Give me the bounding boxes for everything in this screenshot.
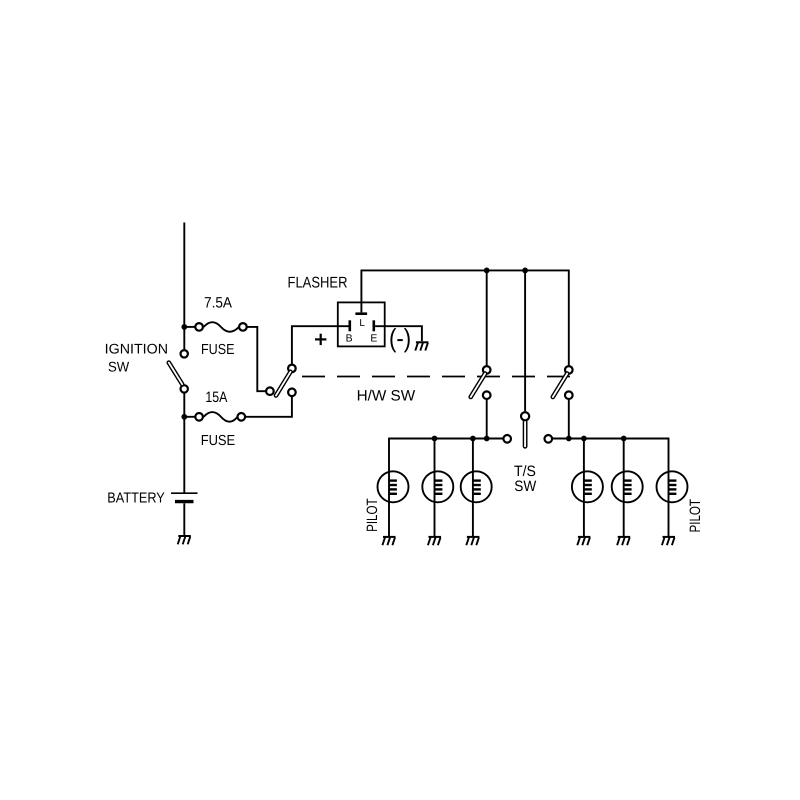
ground flasher [415, 342, 428, 350]
lamp L3 [461, 439, 492, 537]
hazard switch mid section lever [471, 374, 485, 397]
plus sign at flasher input [315, 334, 326, 345]
lamp L5 [612, 439, 643, 537]
ground lamp L3 [466, 537, 479, 545]
dashed mechanical linkage line [302, 376, 570, 378]
svg-text:(-): (-) [389, 323, 411, 353]
svg-text:IGNITION: IGNITION [105, 341, 168, 357]
wire battery to ground [183, 503, 185, 536]
svg-text:BATTERY: BATTERY [107, 491, 165, 507]
ground lamp L5 [617, 537, 630, 545]
fuse F1 7.5A element [204, 322, 239, 332]
hazard switch right section lever [553, 374, 567, 397]
ground lamp L4 [577, 537, 590, 545]
node right bus lamp4 [581, 436, 587, 442]
wire H/W right bottom terminal to right lamp bus [568, 400, 570, 439]
svg-text:FUSE: FUSE [201, 433, 236, 449]
hazard switch left section lever [276, 372, 291, 396]
turn signal switch right contact [545, 435, 553, 443]
fuse F1 7.5A right terminal [239, 323, 247, 331]
svg-text:PILOT: PILOT [687, 499, 704, 533]
svg-text:H/W SW: H/W SW [357, 387, 416, 404]
fuse F2 15A left terminal [195, 413, 203, 421]
wire flasher top to L plate [360, 270, 362, 312]
node right bus lamp5 [621, 436, 627, 442]
battery B1 negative plate [175, 500, 194, 503]
fuse F1 7.5A left terminal [195, 323, 203, 331]
battery B1 positive plate [171, 492, 198, 494]
node right bus H/W feed [566, 436, 572, 442]
svg-text:15A: 15A [205, 389, 227, 406]
wire main vertical from top to battery (upper part) [183, 223, 185, 350]
wire top bus down to T/S switch [524, 270, 526, 411]
ground battery [178, 536, 191, 544]
lamp L6 (right pilot) [657, 439, 688, 537]
hazard switch left section: pole A terminal (from 7.5A fuse) [266, 387, 274, 395]
svg-text:FUSE: FUSE [201, 342, 235, 358]
flasher B terminal bar [348, 320, 351, 331]
turn signal switch T/S pivot terminal [521, 412, 529, 420]
wire right lamp bus [553, 438, 670, 440]
svg-text:SW: SW [108, 359, 130, 375]
flasher L terminal plate [355, 312, 367, 315]
wire left lamp bus [388, 438, 503, 440]
node top bus to H/W mid branch [484, 268, 490, 274]
svg-text:B: B [346, 334, 353, 345]
svg-text:7.5A: 7.5A [204, 294, 232, 311]
node left bus lamp2 [432, 436, 438, 442]
wire to fuse F2 [184, 416, 194, 418]
ground lamp L1 [382, 537, 395, 545]
hazard switch left section: pole B terminal (to flasher +) [288, 365, 296, 373]
wire hazard pole B to flasher B terminal [292, 326, 349, 364]
wire top bus from flasher to right [361, 270, 569, 365]
ignition switch SW1 lever [169, 363, 182, 385]
svg-text:L: L [359, 318, 365, 329]
wire from F1 to hazard switch pole A [247, 327, 265, 391]
svg-text:PILOT: PILOT [364, 498, 381, 532]
ignition switch SW1 bottom terminal [181, 385, 188, 392]
wire to fuse F1 [184, 326, 194, 328]
turn signal switch lever (vertical) [523, 422, 528, 446]
hazard switch right section bottom terminal [565, 391, 573, 399]
wire top bus down to H/W mid switch [486, 270, 488, 365]
lamp L4 [572, 439, 603, 537]
ignition switch SW1 top terminal [181, 350, 188, 357]
node fuse1 tap junction dot [181, 324, 187, 330]
wire main vertical between ignition switch and battery [183, 393, 185, 493]
svg-text:FLASHER: FLASHER [288, 275, 348, 292]
flasher unit U1 box [338, 302, 385, 346]
lamp L1 (left pilot) [378, 439, 409, 537]
ground lamp L6 [662, 537, 675, 545]
flasher E terminal bar [372, 320, 375, 331]
svg-text:SW: SW [514, 478, 537, 495]
fuse F2 15A right terminal [238, 413, 246, 421]
node top bus to T/S branch [522, 268, 528, 274]
wire flasher E to ground [375, 326, 422, 341]
wire H/W mid bottom terminal to left lamp bus [486, 400, 488, 439]
hazard switch mid section top terminal [483, 366, 491, 374]
node left bus lamp3 [470, 436, 476, 442]
node fuse2 tap junction dot [181, 414, 187, 420]
svg-text:E: E [370, 334, 377, 345]
hazard switch left section: pole C terminal (to 15A fuse) [288, 389, 296, 397]
turn signal switch left contact [503, 435, 511, 443]
fuse F2 15A element [204, 412, 238, 422]
hazard switch mid section bottom terminal [483, 391, 491, 399]
lamp L2 [422, 439, 453, 537]
ground lamp L2 [428, 537, 441, 545]
wire from F2 to hazard switch pole C [246, 397, 292, 417]
hazard switch right section top terminal [565, 366, 573, 374]
node left bus H/W feed [484, 436, 490, 442]
